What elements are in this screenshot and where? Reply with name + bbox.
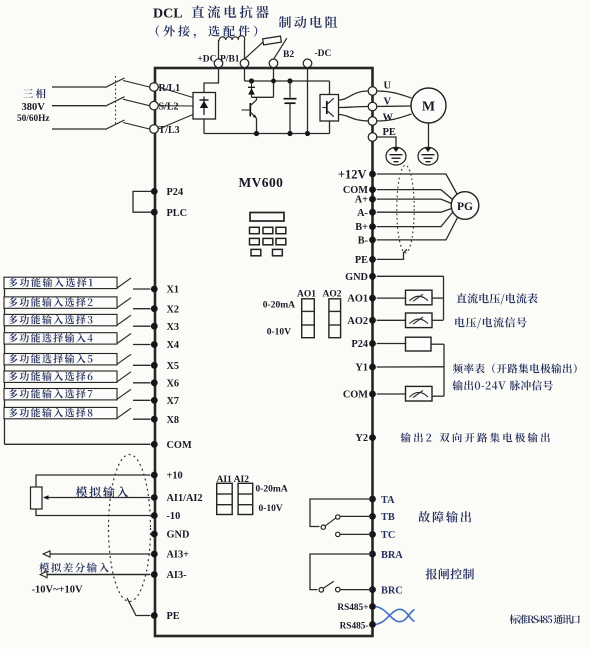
svg-text:V: V <box>384 97 392 108</box>
svg-text:DCL: DCL <box>153 7 183 22</box>
svg-text:380V: 380V <box>22 102 46 113</box>
svg-text:T/L3: T/L3 <box>159 125 180 136</box>
svg-text:0-20mA: 0-20mA <box>263 301 295 311</box>
svg-text:X1: X1 <box>167 285 180 296</box>
svg-text:AI1/AI2: AI1/AI2 <box>167 493 203 504</box>
svg-text:+12V: +12V <box>338 167 367 181</box>
svg-text:PE: PE <box>355 255 368 266</box>
svg-text:-10V~+10V: -10V~+10V <box>32 585 84 596</box>
svg-text:0-10V: 0-10V <box>259 504 283 514</box>
svg-text:X2: X2 <box>167 304 180 315</box>
svg-text:+DC: +DC <box>197 55 216 65</box>
svg-text:X5: X5 <box>167 361 180 372</box>
svg-text:S/L2: S/L2 <box>159 102 179 113</box>
svg-text:50/60Hz: 50/60Hz <box>17 114 50 124</box>
svg-text:P24: P24 <box>351 339 368 350</box>
svg-text:X3: X3 <box>167 322 180 333</box>
svg-text:A-: A- <box>357 208 368 219</box>
svg-text:0-20mA: 0-20mA <box>256 485 288 495</box>
svg-text:X7: X7 <box>167 396 180 407</box>
svg-text:AO1: AO1 <box>347 294 368 305</box>
svg-text:P24: P24 <box>167 187 184 198</box>
svg-text:U: U <box>384 81 392 92</box>
svg-text:AO1: AO1 <box>297 290 316 300</box>
svg-text:X4: X4 <box>167 340 180 351</box>
svg-text:GND: GND <box>345 272 368 283</box>
svg-text:+10: +10 <box>167 471 183 482</box>
svg-text:P/B1: P/B1 <box>220 55 240 65</box>
svg-text:TB: TB <box>381 512 395 523</box>
svg-text:BRC: BRC <box>381 585 403 596</box>
svg-text:A+: A+ <box>355 195 368 206</box>
svg-text:AO2: AO2 <box>323 290 342 300</box>
svg-text:AI3+: AI3+ <box>167 550 190 561</box>
svg-text:B+: B+ <box>355 222 368 233</box>
svg-text:MV600: MV600 <box>239 175 284 190</box>
svg-text:PE: PE <box>383 127 396 138</box>
svg-text:COM: COM <box>343 390 368 401</box>
svg-text:Y2: Y2 <box>355 433 368 444</box>
svg-text:AI3-: AI3- <box>167 570 188 581</box>
svg-text:X8: X8 <box>167 415 180 426</box>
svg-text:PLC: PLC <box>167 208 188 219</box>
svg-text:COM: COM <box>167 440 192 451</box>
svg-text:TA: TA <box>381 495 395 506</box>
svg-text:B-: B- <box>358 236 369 247</box>
svg-text:R/L1: R/L1 <box>159 83 181 94</box>
svg-text:RS485+: RS485+ <box>337 603 368 613</box>
svg-text:Y1: Y1 <box>355 363 368 374</box>
svg-text:W: W <box>383 113 394 124</box>
svg-text:TC: TC <box>381 530 395 541</box>
svg-text:PG: PG <box>457 201 473 213</box>
svg-text:M: M <box>422 100 435 115</box>
svg-text:X6: X6 <box>167 378 180 389</box>
svg-text:PE: PE <box>167 611 180 622</box>
svg-text:GND: GND <box>167 530 190 541</box>
svg-text:B2: B2 <box>283 50 294 60</box>
svg-text:0-10V: 0-10V <box>267 328 291 338</box>
svg-text:AI1 AI2: AI1 AI2 <box>217 475 250 485</box>
svg-text:RS485-: RS485- <box>340 621 369 631</box>
svg-text:-10: -10 <box>167 511 181 522</box>
svg-text:AO2: AO2 <box>347 316 368 327</box>
svg-text:-DC: -DC <box>315 49 332 59</box>
svg-text:BRA: BRA <box>381 550 403 561</box>
